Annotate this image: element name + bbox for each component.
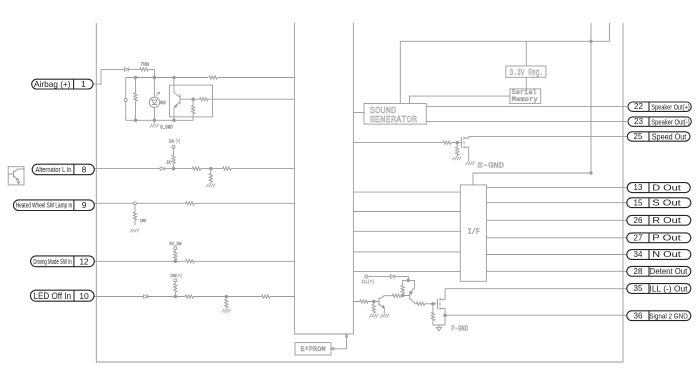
svg-text:3.3V Reg.: 3.3V Reg.: [510, 68, 544, 78]
sound generator U4 box: [364, 104, 426, 125]
pin 23 Speaker Out(-): [628, 117, 691, 126]
pin 36 Signal 2 GND: [627, 311, 691, 321]
wire eeprom to U1: [331, 334, 347, 349]
svg-text:S Out: S Out: [652, 197, 681, 207]
wire base pulldown: [192, 99, 194, 120]
resistor R8 shunt: [209, 174, 212, 182]
svg-text:D Out: D Out: [652, 183, 681, 193]
svg-text:ILL (-) Out: ILL (-) Out: [650, 284, 689, 293]
wire from ILL terminal: [368, 275, 391, 277]
node junction: [225, 295, 228, 298]
resistor R13 series: [186, 260, 194, 263]
resistor R15 series: [185, 295, 193, 298]
wire LED off line: [94, 296, 143, 298]
node junction: [153, 119, 156, 122]
transistor Q6 mosfet ill: [437, 289, 445, 325]
ground G_GND: [153, 120, 155, 123]
svg-text:Airbag (+): Airbag (+): [34, 80, 71, 89]
svg-text:LED Off In: LED Off In: [34, 291, 72, 301]
interface U5 I/F box: [460, 185, 486, 281]
wire I/F to pin 13: [486, 187, 627, 189]
ground P-GND stub: [438, 325, 440, 327]
pin 26 R Out: [627, 215, 691, 225]
wire pullup: [174, 282, 176, 297]
wire alternator line: [92, 168, 160, 170]
wire source to pin 36: [445, 314, 627, 316]
node junction source: [444, 314, 447, 317]
pin 27 P Out: [627, 232, 691, 242]
wire bottom loop: [433, 321, 445, 326]
transistor Q5 emitter arrow: [410, 292, 413, 294]
pin 13 D Out: [627, 183, 690, 193]
terminal IGN circle: [172, 145, 175, 148]
ground Q4 base: [369, 314, 378, 318]
resistor R6 pullup: [172, 155, 175, 163]
svg-text:Speed Out: Speed Out: [652, 132, 687, 141]
arrow into eeprom: [331, 347, 335, 350]
transistor Q4 emitter arrow: [382, 306, 384, 308]
node junction: [134, 76, 137, 79]
wire: [148, 296, 185, 298]
svg-text:GENERATOR: GENERATOR: [370, 114, 418, 125]
wire to rail: [148, 69, 154, 77]
wire: [129, 68, 140, 70]
wire to U1: [231, 168, 295, 170]
svg-text:36: 36: [634, 311, 643, 320]
microcontroller U1 box: [294, 23, 353, 334]
wire base out to U1: [208, 98, 294, 100]
diode D1: [125, 67, 129, 71]
wire Q5 collector: [415, 303, 417, 305]
wire sound out- to pin 23: [426, 121, 627, 123]
resistor R1: [140, 68, 148, 71]
pin 12 Driving Mode SW In: [31, 256, 95, 267]
wire I/F to pin 34: [486, 254, 627, 256]
wire ground rail: [126, 119, 193, 121]
wire to U1: [270, 296, 295, 298]
wire Q4 collector: [384, 295, 392, 297]
wire U1 to I/F in1: [353, 191, 460, 193]
svg-text:I/F: I/F: [467, 229, 480, 237]
node junction base: [192, 98, 195, 101]
terminal ILL(+) circle: [365, 275, 368, 278]
arrow into U1: [345, 334, 348, 338]
wire I/F to pin 28: [486, 270, 627, 272]
resistor R11 series: [186, 202, 194, 205]
resistor R4 base series: [200, 98, 208, 101]
svg-text:G_GND: G_GND: [160, 125, 172, 131]
test point circle: [124, 99, 127, 102]
svg-text:5V_SW: 5V_SW: [169, 241, 181, 247]
wire to U1: [194, 202, 294, 204]
resistor R23 pulldown: [372, 304, 375, 312]
svg-text:1K: 1K: [166, 159, 171, 165]
svg-text:ILL(+): ILL(+): [362, 279, 375, 285]
wire bias branch: [403, 280, 409, 295]
wire left branch: [125, 78, 127, 121]
resistor R19 pulldown: [456, 147, 459, 155]
wire airbag input: [93, 69, 125, 84]
resistor R16 shunt: [225, 299, 228, 307]
pin 1 Airbag: [32, 79, 93, 89]
svg-text:N Out: N Out: [652, 249, 681, 259]
ground source: [466, 162, 475, 166]
resistor R9 series: [223, 167, 231, 170]
resistor R24 collector: [392, 294, 400, 297]
svg-text:25: 25: [634, 132, 643, 141]
wire airbag rail: [126, 77, 295, 79]
node junction: [173, 119, 176, 122]
resistor R2 on rail: [208, 76, 218, 79]
wire pulldown: [134, 205, 136, 226]
ground ext arrow: [17, 182, 20, 184]
wire: [193, 296, 261, 298]
svg-text:Heated Wheel SW Lamp In: Heated Wheel SW Lamp In: [16, 203, 73, 210]
svg-text:IGN (+): IGN (+): [169, 139, 181, 145]
transistor Q2 emitter arrow: [17, 179, 19, 181]
node junction: [174, 260, 177, 263]
wire I/F to pin 15: [486, 202, 627, 204]
node junction Q5 base: [401, 294, 404, 297]
svg-text:IGN(+): IGN(+): [170, 273, 182, 279]
pin 34 N Out: [627, 249, 691, 259]
pin 25 Speed Out: [627, 132, 690, 142]
wire drain to pin 25: [469, 135, 627, 137]
pin 9 Heated Wheel SW Lamp In: [13, 200, 94, 211]
resistor R14 pullup: [174, 284, 177, 292]
wire U1 to sound generator: [353, 112, 364, 114]
wire pullup: [174, 250, 176, 262]
svg-text:22: 22: [634, 102, 643, 111]
resistor R20 bias: [401, 285, 404, 293]
wire heated wheel line: [93, 202, 185, 204]
wire: [201, 168, 223, 170]
svg-text:10K: 10K: [140, 218, 147, 224]
wire speed gate from U1: [353, 142, 443, 144]
wire U1 to I/F in2: [353, 211, 460, 213]
node junction gate: [456, 141, 459, 144]
pin 10 LED Off In: [30, 290, 94, 301]
svg-text:12: 12: [79, 257, 89, 266]
LED D2 circle: [149, 97, 159, 107]
wire to gate: [425, 303, 437, 305]
wire: [164, 168, 192, 170]
wire gate pulldown: [456, 143, 458, 157]
wire I/F to pin 26: [486, 219, 627, 221]
svg-text:28: 28: [634, 267, 643, 276]
node tap circle: [134, 202, 137, 205]
resistor R18 gate: [443, 141, 451, 144]
svg-text:Signal 2 GND: Signal 2 GND: [649, 311, 688, 320]
wire emitter branch: [408, 280, 414, 287]
svg-text:Detent Out: Detent Out: [650, 267, 688, 276]
wire drain to pin 35: [445, 288, 627, 290]
wire VCC drop to regulator: [525, 41, 527, 66]
transistor Q1 box: [169, 85, 212, 117]
svg-text:Speaker Out(-): Speaker Out(-): [651, 117, 690, 126]
ground: [130, 229, 139, 233]
wire serial memory to sound generator: [410, 96, 510, 103]
ground: [222, 309, 231, 313]
transistor Q4 npn: [353, 296, 384, 314]
node junction: [153, 76, 156, 79]
svg-text:E²PROM: E²PROM: [301, 346, 326, 353]
node junction gate: [432, 303, 435, 306]
resistor R25 gate pulldown: [431, 312, 434, 320]
wire sound out+ to pin 22: [426, 106, 627, 108]
svg-text:34: 34: [634, 250, 643, 259]
LED arrow: [157, 92, 160, 95]
node junction: [174, 295, 177, 298]
wire shunt: [210, 169, 212, 184]
resistor R3: [134, 93, 137, 101]
node junction Q4 base: [373, 300, 376, 303]
resistor R10: [133, 212, 136, 220]
node junction I/F VCC: [590, 172, 592, 174]
svg-text:Memory: Memory: [512, 96, 538, 103]
node junction: [210, 167, 213, 170]
svg-text:23: 23: [634, 117, 643, 126]
regulator U2 3.3V box: [506, 66, 546, 77]
resistor R5: [191, 105, 194, 113]
wire Q1 base: [180, 98, 200, 100]
wire base pulldown: [373, 302, 375, 314]
svg-text:Serial: Serial: [512, 89, 537, 96]
svg-text:P-GND: P-GND: [451, 325, 468, 333]
wire regulator to serial memory: [525, 77, 527, 89]
pin 15 S Out: [627, 197, 691, 207]
svg-text:10: 10: [79, 291, 89, 301]
wire gate pulldown: [432, 304, 434, 312]
LED D2 triangle: [152, 100, 157, 105]
wire driving mode line: [93, 260, 185, 262]
resistor R12 pullup: [174, 251, 177, 259]
diode D5: [390, 274, 394, 278]
wire to Q5 base: [401, 295, 403, 297]
wire VCC drop to sound generator: [399, 41, 401, 103]
wire to U1: [194, 260, 294, 262]
wire U1 to I/F in3: [353, 230, 460, 232]
eeprom U6 box: [295, 343, 331, 355]
node junction: [173, 76, 176, 79]
transistor Q2 external: [8, 169, 24, 180]
pin 35 ILL (-) Out: [627, 284, 691, 294]
wire to node A: [395, 276, 409, 280]
ground Q4 emitter: [380, 314, 389, 318]
svg-text:26: 26: [634, 216, 643, 225]
node junction: [134, 119, 137, 122]
pin 28 Detent Out: [627, 266, 691, 276]
node junction A: [407, 279, 410, 282]
ground P-GND symbol: [436, 327, 441, 331]
svg-text:27: 27: [634, 233, 643, 242]
wire VCC rail top: [400, 40, 609, 42]
alternator ext box: [8, 167, 24, 185]
ground pulldown: [452, 157, 461, 161]
resistor R7 series: [192, 167, 200, 170]
svg-text:Alternator L In: Alternator L In: [36, 165, 72, 174]
wire I/F top to VCC: [473, 173, 591, 185]
wire U1 to I/F in5: [353, 270, 460, 272]
pin 22 Speaker Out(+): [628, 102, 691, 111]
resistor R17 series: [262, 295, 270, 298]
wire vertical to I/F: [590, 23, 592, 173]
svg-text:9: 9: [82, 200, 87, 210]
node junction: [172, 167, 175, 170]
diode D3: [160, 167, 164, 171]
wire pullup: [173, 148, 175, 168]
transistor Q3 mosfet speed: [462, 136, 469, 161]
svg-text:R Out: R Out: [652, 215, 681, 225]
resistor R21 gate series: [416, 302, 424, 305]
node junction VCC: [590, 40, 592, 42]
ground: [206, 184, 215, 188]
LED wire bottom: [153, 108, 155, 121]
transistor Q1: [174, 78, 180, 121]
resistor R22 base series: [360, 300, 368, 303]
wire stub B+: [609, 23, 611, 41]
terminal IGN circle: [174, 279, 177, 282]
wire U1 to I/F in4: [353, 251, 460, 253]
diode D4: [144, 295, 148, 299]
svg-text:P Out: P Out: [652, 232, 681, 242]
wire branch R3: [135, 78, 137, 121]
wire shunt: [225, 297, 227, 309]
svg-text:750Ω: 750Ω: [140, 62, 149, 68]
svg-text:S-GND: S-GND: [477, 162, 504, 170]
svg-text:RED: RED: [160, 100, 166, 106]
main board outline: [96, 23, 623, 362]
svg-text:Driving Mode SW In: Driving Mode SW In: [33, 259, 72, 266]
svg-text:35: 35: [634, 284, 643, 293]
LED D2 RED wire top: [153, 78, 155, 98]
wire I/F to pin 27: [486, 237, 627, 239]
wire gate: [451, 142, 461, 144]
transistor Q5 pnp: [403, 288, 415, 304]
pin 8 Alternator L In: [32, 164, 94, 175]
terminal 5V circle: [174, 247, 177, 250]
svg-text:1: 1: [81, 79, 86, 89]
transistor Q1 emitter arrow: [175, 105, 177, 108]
serial memory U3 box: [510, 89, 541, 104]
svg-text:8: 8: [82, 164, 87, 174]
svg-text:15: 15: [634, 198, 643, 207]
svg-text:Speaker Out(+): Speaker Out(+): [651, 102, 690, 111]
svg-text:13: 13: [634, 183, 643, 192]
